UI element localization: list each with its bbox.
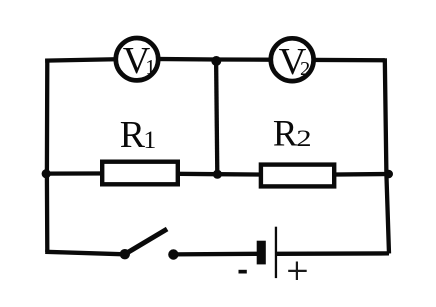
- wire: resistor row horizontal: [44, 173, 389, 175]
- switch S1 (open): [120, 229, 179, 260]
- resistor R1: [102, 162, 178, 185]
- battery B1: positive plate (long thin): [275, 227, 277, 278]
- node: right resistor-row junction: [384, 170, 393, 179]
- svg-text:2: 2: [300, 58, 310, 80]
- voltmeter U2 (V2): [271, 38, 314, 83]
- label: battery minus: [239, 270, 247, 274]
- wire: bottom left (corner to switch): [45, 252, 125, 255]
- label R2: [273, 113, 312, 154]
- wire: top horizontal (node between V1/V2 and supply loop): [45, 59, 385, 61]
- wire: battery positive to bottom right corner: [276, 251, 389, 256]
- voltmeter U1 (V1): [116, 38, 158, 82]
- svg-text:2: 2: [296, 126, 311, 151]
- svg-text:R: R: [273, 113, 298, 154]
- battery B1: negative plate (short thick): [257, 241, 266, 265]
- wire: switch to battery negative: [173, 252, 258, 257]
- resistor R2: [261, 165, 334, 187]
- wire: right vertical branch: [385, 58, 389, 253]
- svg-text:R: R: [120, 114, 146, 156]
- label: battery plus: [288, 262, 307, 281]
- node: left resistor-row junction: [42, 169, 51, 178]
- svg-text:1: 1: [145, 55, 156, 79]
- wire: left vertical branch: [45, 59, 50, 252]
- label R1: [120, 114, 157, 156]
- svg-text:1: 1: [143, 125, 156, 154]
- node: top middle junction: [211, 56, 221, 66]
- node: middle resistor-row junction: [213, 170, 222, 179]
- wire: middle vertical (junction between V1 and V2 down to resistor node): [216, 60, 217, 175]
